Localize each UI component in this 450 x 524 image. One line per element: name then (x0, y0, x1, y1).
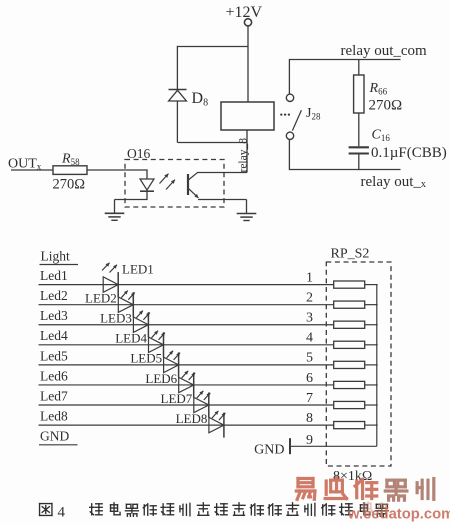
label R66 (369, 81, 388, 97)
ground (emitter side) (237, 214, 257, 221)
LED1 light arrows (102, 263, 117, 273)
wire emitter to ground (198, 200, 247, 214)
pin 7 number (306, 391, 313, 406)
label relay_8 vertical (238, 138, 250, 173)
svg-text:LED4: LED4 (115, 331, 147, 346)
svg-text:relay out_x: relay out_x (361, 174, 426, 190)
terminal +12V (244, 19, 251, 26)
pin 1 number (306, 270, 313, 285)
svg-text:GND: GND (254, 443, 284, 458)
svg-text:relay out_com: relay out_com (341, 43, 428, 59)
svg-text:+12V: +12V (226, 4, 263, 21)
label LED8 (176, 411, 208, 426)
label R58 (61, 152, 80, 168)
pin 9 number (306, 433, 313, 448)
switch J28 upper contact (286, 94, 293, 101)
resistor RP_S2-2 (334, 301, 365, 308)
wire collector node horizontal (197, 172, 247, 174)
wire Led1 line (39, 284, 334, 286)
wire relay coil bottom vertical (246, 130, 248, 173)
node Led6 label (40, 368, 68, 383)
label 270ohm (R66) (369, 98, 403, 114)
wire Light stub (40, 264, 79, 266)
svg-text:6: 6 (306, 371, 313, 386)
wire opto LED cathode to ground (115, 191, 148, 214)
label D8 (192, 90, 209, 109)
resistor R66 (354, 75, 364, 113)
ground (opto LED side) (105, 213, 125, 220)
svg-text:4: 4 (58, 505, 66, 521)
terminal GND tick (289, 438, 291, 454)
svg-text:LED6: LED6 (145, 371, 177, 386)
label J28 (306, 106, 321, 122)
wire Led3 line (39, 324, 334, 326)
switch J28 blade (292, 110, 301, 130)
wire RP_S2-1 to bus (365, 284, 378, 286)
LED LED4 (149, 332, 164, 357)
LED4 light arrows (152, 331, 166, 340)
svg-text:LED5: LED5 (130, 351, 162, 366)
wire pin 9 (290, 445, 377, 447)
wire D8 anode-top vertical (176, 46, 178, 90)
wire J28 upper (288, 59, 290, 94)
node Light label (41, 249, 70, 264)
LED LED5 (164, 352, 179, 377)
svg-text:GND: GND (40, 429, 69, 444)
svg-text:Led2: Led2 (40, 288, 68, 303)
svg-text:w.eedatop.com: w.eedatop.com (347, 507, 450, 523)
figure caption (40, 503, 389, 521)
svg-text:2: 2 (306, 290, 313, 305)
svg-text:LED8: LED8 (176, 411, 208, 426)
svg-text:LED3: LED3 (100, 311, 132, 326)
svg-text:RP_S2: RP_S2 (331, 247, 370, 262)
net relay out_x label (361, 174, 426, 190)
wire Led8 line (39, 424, 334, 426)
LED LED8 (209, 413, 224, 438)
node Led5 label (40, 348, 68, 363)
wire RP_S2-3 to bus (365, 324, 378, 326)
LED3 light arrows (136, 311, 150, 320)
svg-text:0.1µF(CBB): 0.1µF(CBB) (371, 145, 447, 161)
pin 5 number (306, 351, 313, 366)
watermark url (347, 502, 450, 522)
label 270ohm (R58) (53, 177, 86, 193)
resistor RP_S2-3 (334, 321, 365, 328)
label 8x1kohm (333, 469, 372, 484)
svg-text:relay_8: relay_8 (238, 138, 250, 173)
svg-text:3: 3 (306, 311, 313, 326)
node GND label (left) (40, 429, 69, 444)
LED7 light arrows (197, 391, 211, 400)
capacitor C16 (349, 147, 369, 153)
svg-text:4: 4 (306, 331, 313, 346)
wire Led6 line (39, 384, 334, 386)
wire opto LED anode (87, 169, 147, 179)
wire RP_S2-4 to bus (365, 344, 378, 346)
wire J28 lower (288, 140, 290, 171)
node Led1 label (40, 268, 68, 283)
svg-text:Led7: Led7 (40, 388, 68, 403)
label RP_S2 (331, 247, 370, 262)
svg-text:270Ω: 270Ω (53, 177, 86, 193)
label LED5 (130, 351, 162, 366)
pin 6 number (306, 371, 313, 386)
resistor RP_S2-8 (334, 421, 365, 428)
pin 4 number (306, 331, 313, 346)
wire OUTx to R58 (11, 169, 53, 171)
wire common bus (376, 285, 378, 447)
LED6 light arrows (182, 371, 196, 380)
node Led7 label (40, 388, 68, 403)
LED LED3 (133, 312, 148, 337)
label LED2 (85, 290, 117, 305)
wire +12V branch horizontal (177, 46, 248, 48)
node OUTx label (8, 157, 42, 172)
wire R66 to C16 (358, 113, 360, 146)
label O16 (127, 146, 150, 161)
label 0.1uF(CBB) (371, 145, 447, 161)
svg-text:LED7: LED7 (161, 391, 193, 406)
LED LED2 (118, 292, 133, 317)
diode D8 (169, 90, 187, 102)
label LED6 (145, 371, 177, 386)
svg-text:5: 5 (306, 351, 313, 366)
label LED7 (161, 391, 193, 406)
resistor RP_S2-4 (334, 341, 365, 348)
svg-text:7: 7 (306, 391, 313, 406)
svg-text:Led6: Led6 (40, 368, 68, 383)
svg-text:Led5: Led5 (40, 348, 68, 363)
svg-text:270Ω: 270Ω (369, 98, 403, 114)
opto LED diode (140, 179, 154, 191)
wire D8 to coil-bottom horizontal (177, 142, 247, 144)
svg-text:Led1: Led1 (40, 268, 68, 283)
opto LED light arrows (160, 174, 176, 190)
watermark big (296, 478, 433, 501)
pin 3 number (306, 311, 313, 326)
LED LED7 (194, 393, 209, 418)
LED LED1 (103, 272, 118, 297)
resistor RP_S2-6 (334, 381, 365, 388)
switch J28 actuation dots (280, 113, 290, 115)
LED LED6 (179, 373, 194, 398)
wire Led5 line (39, 364, 334, 366)
wire C16 bottom (358, 154, 360, 171)
wire D8 bottom vertical (176, 101, 178, 143)
wire relay out_x (289, 169, 400, 171)
resistor RP_S2-7 (334, 401, 365, 408)
node Led3 label (40, 308, 68, 323)
optocoupler O16 dashed box (125, 160, 224, 208)
svg-text:LED2: LED2 (85, 290, 117, 305)
svg-text:LED1: LED1 (122, 262, 154, 277)
wire GND stub (39, 444, 78, 446)
net +12V label (226, 4, 263, 21)
wire +12V vertical to relay coil (247, 26, 249, 102)
wire RP_S2-6 to bus (365, 384, 378, 386)
svg-text:1: 1 (306, 270, 313, 285)
svg-text:Led3: Led3 (40, 308, 68, 323)
resistor R58 (53, 166, 87, 175)
relay coil box (221, 102, 274, 130)
node GND label (pin 9) (254, 443, 284, 458)
svg-text:OUTx: OUTx (8, 157, 42, 172)
label C16 (372, 128, 391, 144)
label LED4 (115, 331, 147, 346)
label LED1 (122, 262, 154, 277)
resistor RP_S2-1 (334, 281, 365, 288)
wire RP_S2-8 to bus (365, 424, 378, 426)
node Led2 label (40, 288, 68, 303)
wire R66 top (358, 60, 360, 76)
wire relay out_com (289, 59, 400, 61)
pin 8 number (306, 411, 313, 426)
resistor pack RP_S2 dashed box (326, 262, 391, 466)
net relay out_com label (341, 43, 428, 59)
wire RP_S2-5 to bus (365, 364, 378, 366)
node Led8 label (40, 408, 68, 423)
wire RP_S2-7 to bus (365, 404, 378, 406)
pin 2 number (306, 290, 313, 305)
wire Led7 line (39, 404, 334, 406)
node Led4 label (40, 328, 68, 343)
svg-text:Led8: Led8 (40, 408, 68, 423)
svg-text:O16: O16 (127, 146, 150, 161)
svg-text:Led4: Led4 (40, 328, 68, 343)
svg-text:8: 8 (306, 411, 313, 426)
LED2 light arrows (121, 290, 135, 299)
wire RP_S2-2 to bus (365, 304, 378, 306)
resistor RP_S2-5 (334, 361, 365, 368)
wire Led2 line (39, 304, 334, 306)
label LED3 (100, 311, 132, 326)
LED5 light arrows (167, 351, 181, 360)
LED8 light arrows (212, 411, 226, 420)
opto phototransistor (188, 173, 198, 198)
switch J28 lower contact (286, 132, 293, 139)
svg-text:Light: Light (41, 249, 70, 264)
wire Led4 line (39, 344, 334, 346)
